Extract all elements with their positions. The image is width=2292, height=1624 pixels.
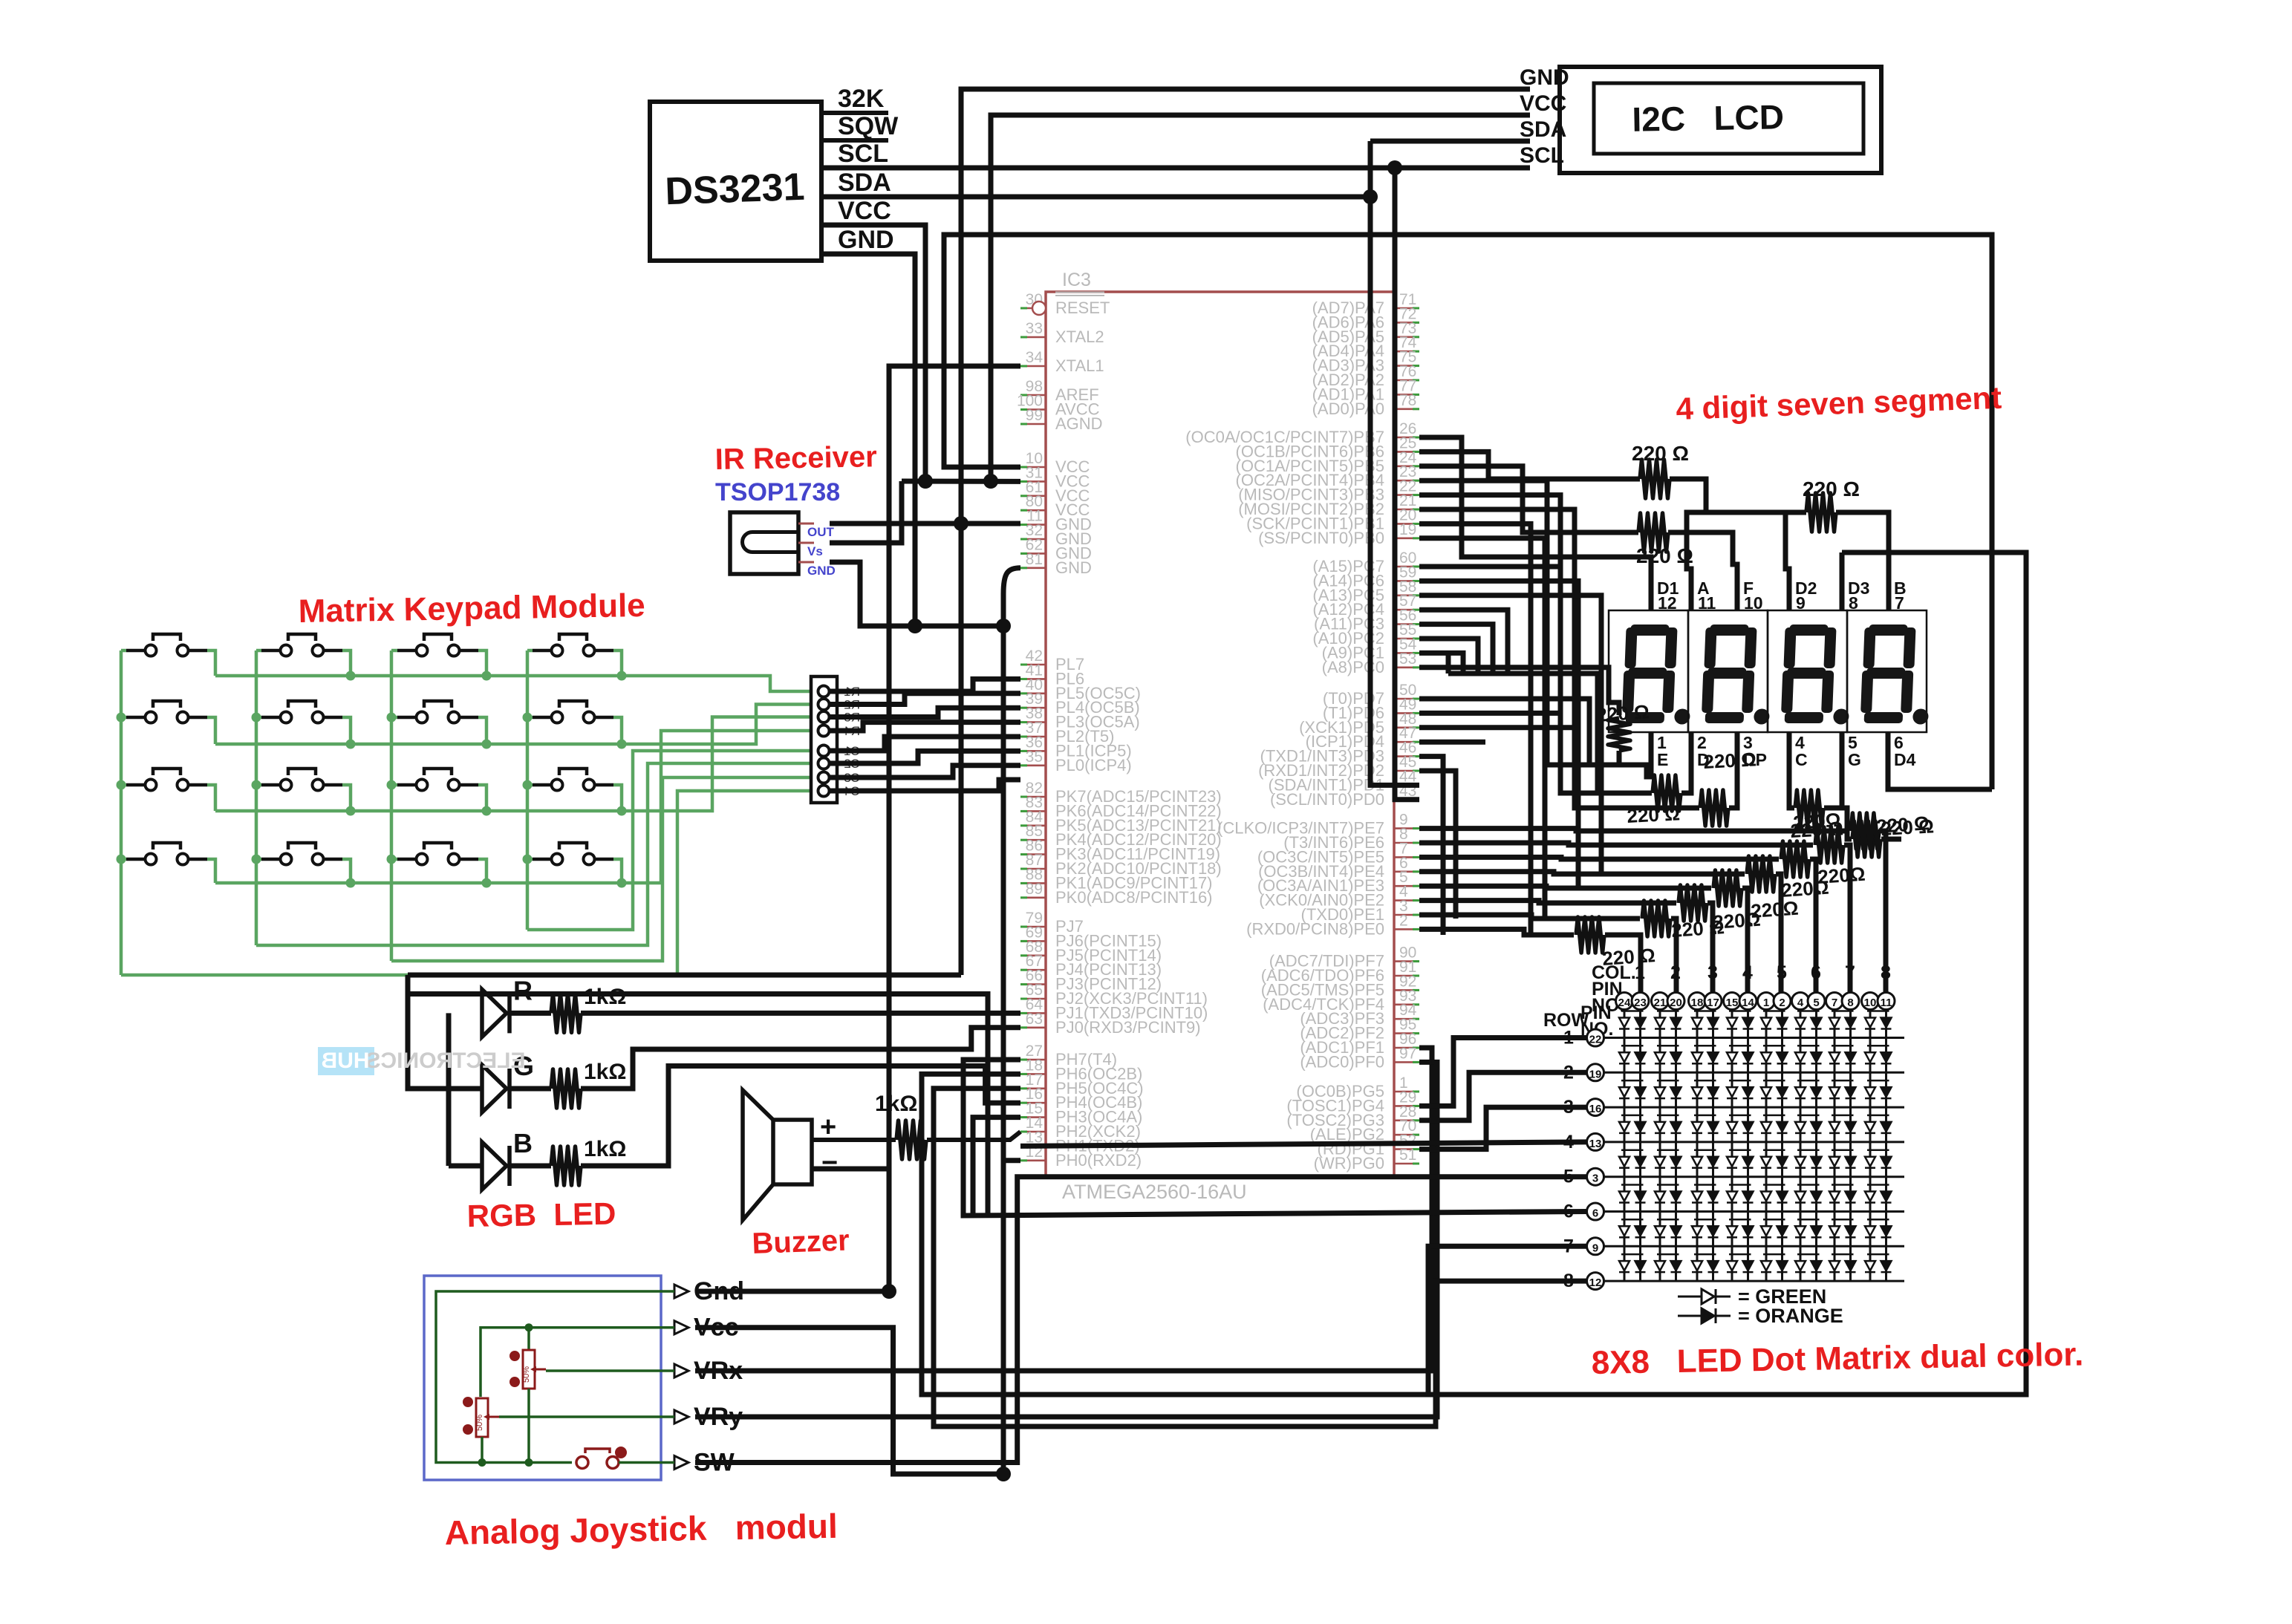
wire R/B common left vertical xyxy=(446,1013,452,1166)
LED pair r3c5 xyxy=(1763,1080,1785,1082)
svg-text:6: 6 xyxy=(1592,1207,1598,1220)
resistor xyxy=(1815,827,1843,863)
IC3 pin 57 (A12)PC4 xyxy=(1394,609,1419,611)
IC3 pin 79 PJ7 xyxy=(1020,926,1046,928)
wire keypad column bus 3 to connector xyxy=(391,777,811,961)
green junction xyxy=(117,780,126,790)
svg-text:15: 15 xyxy=(1726,997,1739,1009)
svg-text:ATMEGA2560-16AU: ATMEGA2560-16AU xyxy=(1062,1181,1247,1203)
wire Vcc line down to gnd rail xyxy=(695,1328,1003,1474)
wire LCD VCC down xyxy=(991,115,1530,481)
svg-text:23: 23 xyxy=(1634,997,1647,1009)
wire IR GND to ground rail xyxy=(830,562,1003,626)
svg-text:ELECTRONICS: ELECTRONICS xyxy=(365,1049,525,1073)
IC3 pin 77 (AD1)PA1 xyxy=(1394,394,1419,396)
LED pair r3c8 xyxy=(1867,1080,1889,1082)
IC3 pin 83 PK6(ADC14/PCINT22) xyxy=(1020,810,1046,812)
svg-text:E: E xyxy=(1657,750,1668,769)
svg-text:32K: 32K xyxy=(838,85,885,113)
wire connector R3 to IC xyxy=(829,708,1020,717)
junction xyxy=(996,619,1011,633)
green junction xyxy=(346,806,356,816)
green junction xyxy=(617,671,627,681)
wire VRx to IC pin 96 xyxy=(695,1048,1432,1371)
wire B lead xyxy=(449,1164,482,1169)
svg-text:9: 9 xyxy=(1592,1242,1598,1254)
resistor xyxy=(1806,493,1836,532)
wire IR Vs to VCC rail xyxy=(830,481,902,543)
IC3 pin 6 (OC3B/INT4)PE4 xyxy=(1394,871,1419,873)
green junction xyxy=(387,713,397,723)
LED pair r5c8 xyxy=(1867,1149,1889,1151)
IC3 pin 67 PJ4(PCINT13) xyxy=(1020,969,1046,971)
green junction xyxy=(523,855,533,864)
junction xyxy=(1387,160,1402,175)
IC3 pin 93 (ADC4/TCK)PF4 xyxy=(1394,1004,1419,1006)
svg-text:D4: D4 xyxy=(1894,750,1916,769)
svg-text:GND: GND xyxy=(807,564,836,578)
IC3 pin 98 AREF xyxy=(1020,394,1046,397)
LED pair r4c3 xyxy=(1694,1115,1716,1117)
wire XTAL1 to long vertical xyxy=(889,366,1020,1291)
svg-text:12: 12 xyxy=(1658,593,1677,613)
LED pair r8c4 xyxy=(1729,1253,1751,1256)
svg-text:5: 5 xyxy=(1563,1167,1574,1187)
IC3 pin 20 (SCK/PCINT1)PB1 xyxy=(1394,523,1419,525)
svg-text:(RXD0/PCIN8)PE0: (RXD0/PCIN8)PE0 xyxy=(1246,919,1384,938)
wire SCL net DS3231 to LCD and IC pin 43 xyxy=(821,166,1530,171)
switch S8 keypad button xyxy=(533,716,550,720)
segment A common chain xyxy=(1687,512,1806,610)
wire matrix col 5 verticals xyxy=(1765,1010,1768,1281)
switch S6 keypad button xyxy=(261,716,279,720)
IC3 pin 90 (ADC7/TDI)PF7 xyxy=(1394,960,1419,962)
LED pair r3c3 xyxy=(1694,1080,1716,1082)
LED pair r7c8 xyxy=(1867,1219,1889,1221)
LED pair r3c7 xyxy=(1832,1080,1854,1082)
green junction xyxy=(482,740,492,749)
svg-text:7: 7 xyxy=(1832,997,1837,1009)
IC3 pin 63 PJ0(RXD3/PCINT9) xyxy=(1020,1027,1046,1029)
svg-text:8: 8 xyxy=(1563,1271,1574,1291)
wire matrix col 8 verticals xyxy=(1869,1010,1872,1281)
LED pair r4c6 xyxy=(1797,1115,1820,1117)
LED pair r2c6 xyxy=(1797,1045,1820,1047)
wire common top H1 to GND xyxy=(408,973,961,978)
svg-text:1kΩ: 1kΩ xyxy=(584,1060,626,1084)
IC3 pin 86 PK3(ADC11/PCINT19) xyxy=(1020,853,1046,855)
matrix col 3 pin circles xyxy=(1689,993,1706,1010)
svg-text:50%: 50% xyxy=(522,1366,531,1383)
svg-text:−: − xyxy=(821,1147,838,1178)
wire VCC rail to IC pin 31 xyxy=(902,479,1020,484)
svg-text:9: 9 xyxy=(1796,593,1806,613)
IC3 pin 85 PK4(ADC12/PCINT20) xyxy=(1020,839,1046,841)
wire VRx internal xyxy=(546,1369,674,1372)
resistor xyxy=(1679,885,1707,921)
svg-text:C: C xyxy=(1795,750,1808,769)
svg-text:(A8)PC0: (A8)PC0 xyxy=(1322,658,1384,676)
wire SW internal xyxy=(619,1461,674,1464)
LED pair r7c6 xyxy=(1797,1219,1820,1221)
IC3 pin 62 GND xyxy=(1020,552,1046,555)
wire VRy to IC pin 97 xyxy=(695,1062,1437,1417)
IC3 pin 46 (TXD1/INT3)PD3 xyxy=(1394,755,1419,757)
joystick pin VRy xyxy=(674,1410,688,1424)
IR pin GND xyxy=(798,561,814,564)
IC3 pin 3 (TXD0)PE1 xyxy=(1394,914,1419,916)
svg-text:PL0(ICP4): PL0(ICP4) xyxy=(1055,756,1132,775)
svg-text:13: 13 xyxy=(1589,1138,1602,1150)
wire IC pin to matrix col 1 xyxy=(1419,929,1574,935)
LED pair r3c1 xyxy=(1621,1080,1644,1082)
wire pot1 bottom xyxy=(527,1389,530,1463)
DS3231 pin 32K xyxy=(821,111,888,115)
IC3 pin 9 (CLKO/ICP3/INT7)PE7 xyxy=(1394,827,1419,829)
svg-text:= ORANGE: = ORANGE xyxy=(1738,1305,1843,1327)
green junction xyxy=(482,878,492,888)
LED pair r8c1 xyxy=(1621,1253,1644,1256)
svg-text:VCC: VCC xyxy=(838,197,891,225)
connector pin C1 xyxy=(818,746,830,757)
IC3 pin 92 (ADC5/TMS)PF5 xyxy=(1394,989,1419,991)
joystick pin SW xyxy=(674,1456,688,1470)
wire keypad row 4 bus to connector xyxy=(207,859,215,883)
green junction xyxy=(478,1458,486,1467)
wire GND long vertical x1351 xyxy=(1001,603,1006,1474)
svg-text:8: 8 xyxy=(1849,593,1858,613)
IC3 pin 100 AVCC xyxy=(1020,408,1046,411)
IC3 pin 52 (RD)PG1 xyxy=(1394,1148,1419,1150)
svg-text:XTAL1: XTAL1 xyxy=(1055,356,1104,375)
svg-text:SDA: SDA xyxy=(1520,117,1566,142)
wire IC pin to matrix col 7 xyxy=(1419,843,1813,845)
IC3 pin 34 XTAL1 xyxy=(1020,365,1046,368)
svg-text:R: R xyxy=(513,975,533,1005)
IC3 pin 16 PH4(OC4B) xyxy=(1020,1102,1046,1104)
green junction xyxy=(346,671,356,681)
svg-text:2: 2 xyxy=(1779,997,1785,1009)
wire pin21 via 220 to DP xyxy=(1419,509,1699,808)
wire D3 to frame xyxy=(1840,552,1845,610)
wire LCD GND down left side xyxy=(961,89,1530,975)
LED pair r7c3 xyxy=(1694,1219,1716,1221)
svg-text:Vs: Vs xyxy=(807,544,823,558)
connector pin R4 xyxy=(818,725,830,737)
wire PD/PB extra staircase stubs xyxy=(1419,524,1531,935)
svg-text:RESET: RESET xyxy=(1055,299,1110,317)
wire IC pin to matrix col 5 xyxy=(1419,872,1745,874)
IC3 pin 26 (OC0A/OC1C/PCINT7)PB7 xyxy=(1394,437,1419,439)
svg-text:4: 4 xyxy=(1797,997,1804,1009)
IC3 pin 21 (MOSI/PCINT2)PB2 xyxy=(1394,509,1419,511)
resistor xyxy=(1747,856,1775,892)
resistor xyxy=(1640,460,1670,498)
svg-text:PJ0(RXD3/PCINT9): PJ0(RXD3/PCINT9) xyxy=(1055,1018,1201,1037)
wire IC pin to matrix col 8 xyxy=(1419,829,1849,831)
green junction xyxy=(252,780,261,790)
wire keypad row 3 bus to connector xyxy=(207,785,215,811)
IC3 pin 53 (A8)PC0 xyxy=(1394,666,1419,668)
legend GREEN diode xyxy=(1678,1296,1702,1298)
wire matrix row 8 line xyxy=(1604,1280,1904,1282)
svg-text:G: G xyxy=(1848,750,1861,769)
LED pair r2c5 xyxy=(1763,1045,1785,1047)
LED pair r8c6 xyxy=(1797,1253,1820,1256)
wire connector R1 to IC xyxy=(829,679,1020,691)
wire matrix row 1 line xyxy=(1604,1037,1904,1039)
svg-text:PK0(ADC8/PCINT16): PK0(ADC8/PCINT16) xyxy=(1055,888,1213,907)
IC3 pin 40 PL5(OC5C) xyxy=(1020,692,1046,694)
LED pair r8c7 xyxy=(1832,1253,1854,1256)
svg-text:220 Ω: 220 Ω xyxy=(1632,442,1689,465)
IC3 pin 58 (A13)PC5 xyxy=(1394,594,1419,596)
IC3 pin 50 (T0)PD7 xyxy=(1394,698,1419,700)
IC3 pin 56 (A11)PC3 xyxy=(1394,623,1419,625)
svg-text:4: 4 xyxy=(1563,1132,1574,1152)
svg-text:220Ω: 220Ω xyxy=(1817,863,1866,888)
IC3 pin 91 (ADC6/TDO)PF6 xyxy=(1394,975,1419,977)
wire keypad column bus 4 to connector xyxy=(121,791,811,975)
LED pair r2c4 xyxy=(1729,1045,1751,1047)
svg-text:1kΩ: 1kΩ xyxy=(584,985,626,1009)
LED pair r5c2 xyxy=(1657,1149,1679,1151)
IC3 pin 37 PL2(T5) xyxy=(1020,736,1046,738)
green junction xyxy=(252,855,261,864)
IC3 pin 99 AGND xyxy=(1020,423,1046,425)
IC3 pin 87 PK2(ADC10/PCINT18) xyxy=(1020,868,1046,870)
wire DS3231 GND down xyxy=(821,254,915,626)
wire B to IC pin 16 xyxy=(509,1164,551,1169)
wire matrix row 5 line xyxy=(1604,1175,1904,1178)
svg-text:XTAL2: XTAL2 xyxy=(1055,327,1104,346)
LED pair r1c2 xyxy=(1657,1010,1679,1012)
IC3 pin 32 GND xyxy=(1020,538,1046,541)
svg-text:5: 5 xyxy=(1813,997,1819,1009)
IC3 pin 59 (A14)PC6 xyxy=(1394,580,1419,582)
matrix col 4 pin circles xyxy=(1724,993,1741,1010)
junction xyxy=(908,619,922,633)
wire pin24 via 220 to F xyxy=(1419,466,1638,532)
wire VCC pin10 loop over top to far right xyxy=(944,235,1992,789)
wire keypad row 1 bus to connector xyxy=(207,650,215,676)
svg-text:10: 10 xyxy=(1864,997,1877,1009)
wire D4 loop right xyxy=(1888,732,1992,789)
resistor xyxy=(551,1069,581,1108)
svg-text:11: 11 xyxy=(1881,997,1892,1009)
IC3 pin 54 (A9)PC1 xyxy=(1394,652,1419,654)
wire C-G resistor xyxy=(1789,732,1794,808)
LED pair r7c5 xyxy=(1763,1219,1785,1221)
op-amp U1 : IC3 ATMEGA2560-16AU body xyxy=(1046,292,1394,1176)
green junction xyxy=(387,855,397,864)
svg-text:97: 97 xyxy=(1399,1045,1416,1062)
IC3 pin 61 VCC xyxy=(1020,495,1046,497)
wire matrix col 2 verticals xyxy=(1659,1010,1661,1281)
IC3 pin 18 PH6(OC2B) xyxy=(1020,1073,1046,1075)
IC3 pin 72 (AD6)PA6 xyxy=(1394,322,1419,324)
wire pin53 via 220 to E xyxy=(1419,668,1619,715)
LED pair r6c2 xyxy=(1657,1184,1679,1186)
IC3 pin 65 PJ2(XCK3/PCINT11) xyxy=(1020,998,1046,1000)
joystick SW button xyxy=(576,1457,588,1469)
wire keypad row 3 left leads xyxy=(121,783,126,787)
resistor xyxy=(1713,870,1742,906)
LED R xyxy=(482,989,507,1037)
LED pair r4c4 xyxy=(1729,1115,1751,1117)
svg-text:Buzzer: Buzzer xyxy=(752,1224,850,1260)
svg-text:14: 14 xyxy=(1742,997,1754,1009)
switch S9 keypad button xyxy=(126,783,144,787)
wire matrix row8 return loop xyxy=(934,1089,1587,1426)
IC3 pin 1 (OC0B)PG5 xyxy=(1394,1091,1419,1093)
svg-text:RGB LED: RGB LED xyxy=(466,1196,616,1233)
wire R LED to IC pin 64 xyxy=(509,1011,551,1016)
svg-text:19: 19 xyxy=(1589,1068,1602,1080)
wire pin28 to matrix row2 xyxy=(1419,1072,1587,1121)
svg-text:IR Receiver: IR Receiver xyxy=(714,440,877,476)
LED pair r7c2 xyxy=(1657,1219,1679,1221)
svg-text:1: 1 xyxy=(1635,962,1645,983)
wire matrix col 1 verticals xyxy=(1624,1010,1626,1281)
svg-text:89: 89 xyxy=(1026,881,1043,898)
svg-text:2: 2 xyxy=(1670,962,1681,983)
svg-text:PH0(RXD2): PH0(RXD2) xyxy=(1055,1151,1142,1170)
LED pair r4c7 xyxy=(1832,1115,1854,1117)
wire matrix row 3 line xyxy=(1604,1106,1904,1109)
junction xyxy=(996,1467,1011,1481)
wire connector R2 to IC xyxy=(829,694,1020,705)
svg-text:(ADC0)PF0: (ADC0)PF0 xyxy=(1300,1052,1384,1071)
resistor xyxy=(1653,775,1681,811)
svg-text:24: 24 xyxy=(1618,997,1631,1009)
LED pair r2c2 xyxy=(1657,1045,1679,1047)
LED pair r4c5 xyxy=(1763,1115,1785,1117)
resistor xyxy=(1608,718,1630,751)
wire keypad col2 vertical xyxy=(255,650,258,945)
wire connector C3 to IC xyxy=(829,766,1020,777)
IC3 pin 66 PJ3(PCINT12) xyxy=(1020,983,1046,985)
LED pair r5c5 xyxy=(1763,1149,1785,1151)
DS3231 pin GND xyxy=(821,252,888,256)
LED pair r1c3 xyxy=(1694,1010,1716,1012)
wire pin52 to matrix row3 xyxy=(1419,1107,1587,1149)
IR receiver U2 TSOP1738 body xyxy=(730,512,798,574)
LED pair r7c7 xyxy=(1832,1219,1854,1221)
joystick pin Vcc xyxy=(674,1321,688,1334)
LED pair r1c6 xyxy=(1797,1010,1820,1012)
legend ORANGE diode xyxy=(1678,1315,1702,1317)
svg-text:19: 19 xyxy=(1399,521,1416,538)
resistor 220 G-extra xyxy=(1842,808,1852,839)
IC3 pin 38 PL3(OC5A) xyxy=(1020,721,1046,723)
IC3 pin 11 GND xyxy=(1020,524,1046,526)
switch S16 keypad button xyxy=(533,858,550,861)
svg-text:220 Ω: 220 Ω xyxy=(1703,748,1757,773)
green junction xyxy=(617,806,627,816)
green junction xyxy=(482,806,492,816)
DS3231 pin SDA xyxy=(821,195,888,199)
LED pair r8c2 xyxy=(1657,1253,1679,1256)
IC3 pin 64 PJ1(TXD3/PCINT10) xyxy=(1020,1012,1046,1014)
resistor xyxy=(1576,917,1604,953)
joystick pin VRx xyxy=(674,1364,688,1377)
wire matrix row7 return loop xyxy=(922,1074,1587,1395)
resistor xyxy=(896,1121,926,1159)
LED pair r4c1 xyxy=(1621,1115,1644,1117)
svg-text:Analog Joystick modul: Analog Joystick modul xyxy=(444,1507,838,1552)
svg-text:81: 81 xyxy=(1026,551,1043,568)
LED pair r5c7 xyxy=(1832,1149,1854,1151)
wire keypad col3 vertical xyxy=(390,650,394,961)
IC3 pin 47 (ICP1)PD4 xyxy=(1394,741,1419,743)
IC3 pin 15 PH3(OC4A) xyxy=(1020,1116,1046,1118)
junction xyxy=(983,474,998,489)
svg-text:11: 11 xyxy=(1698,593,1716,613)
wire IC pin to matrix col 6 xyxy=(1419,857,1779,859)
LED pair r4c8 xyxy=(1867,1115,1889,1117)
wire connector R4 to IC xyxy=(829,723,1020,731)
svg-text:63: 63 xyxy=(1026,1011,1043,1028)
buzzer speaker body xyxy=(773,1120,812,1184)
wire joystick vcc internal xyxy=(481,1328,674,1397)
wire big frame right vertical xyxy=(1428,552,2026,1395)
svg-text:2: 2 xyxy=(1563,1062,1574,1083)
green junction xyxy=(523,713,533,723)
junction xyxy=(954,516,968,531)
IC3 pin 70 (ALE)PG2 xyxy=(1394,1134,1419,1136)
svg-text:I2C LCD: I2C LCD xyxy=(1632,97,1784,139)
IC3 pin 82 PK7(ADC15/PCINT23) xyxy=(1020,796,1046,798)
wire matrix col 6 verticals xyxy=(1800,1010,1802,1281)
resistor xyxy=(1700,790,1728,826)
wire VRy internal xyxy=(499,1415,674,1418)
IC3 pin 81 GND xyxy=(1020,567,1046,569)
svg-text:TSOP1738: TSOP1738 xyxy=(715,478,840,506)
svg-text:220 Ω: 220 Ω xyxy=(1803,477,1860,500)
wire keypad row 2 bus to connector xyxy=(207,717,215,744)
wire keypad column bus 2 to connector xyxy=(256,763,811,945)
IC3 pin 35 PL0(ICP4) xyxy=(1020,765,1046,767)
wire D2 tap xyxy=(1785,512,1789,610)
svg-text:4: 4 xyxy=(1742,962,1753,983)
wire keypad row 1 left leads xyxy=(121,649,126,653)
switch S14 keypad button xyxy=(261,858,279,861)
IC3 pin 2 (RXD0/PCIN8)PE0 xyxy=(1394,928,1419,930)
svg-text:99: 99 xyxy=(1026,407,1043,424)
LED pair r4c2 xyxy=(1657,1115,1679,1117)
IC3 pin 89 PK0(ADC8/PCINT16) xyxy=(1020,897,1046,899)
svg-text:GND: GND xyxy=(1520,65,1569,90)
IC3 pin 76 (AD2)PA2 xyxy=(1394,379,1419,382)
matrix col 5 pin circles xyxy=(1758,993,1775,1010)
svg-text:3: 3 xyxy=(1563,1097,1574,1118)
svg-text:3: 3 xyxy=(1707,962,1718,983)
svg-text:7: 7 xyxy=(1563,1236,1574,1256)
svg-text:1: 1 xyxy=(1763,997,1769,1009)
wire connector C1 to IC xyxy=(829,737,1020,751)
resistor 1k buzzer xyxy=(812,1138,896,1142)
svg-text:SCL: SCL xyxy=(838,140,888,168)
LED pair r6c5 xyxy=(1763,1184,1785,1186)
green junction xyxy=(617,740,627,749)
resistor xyxy=(1638,513,1668,552)
LED pair r8c3 xyxy=(1694,1253,1716,1256)
LED pair r2c8 xyxy=(1867,1045,1889,1047)
svg-text:34: 34 xyxy=(1026,349,1044,366)
wire matrix col 7 verticals xyxy=(1834,1010,1836,1281)
IC3 pin 42 PL7 xyxy=(1020,664,1046,666)
